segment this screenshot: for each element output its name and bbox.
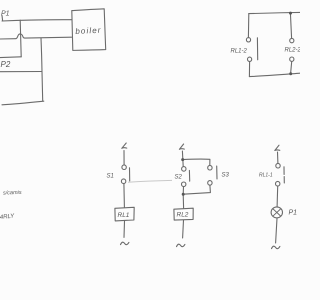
svg-text:S1: S1 bbox=[107, 174, 114, 180]
svg-text:s/camis: s/camis bbox=[3, 190, 22, 197]
svg-text:S2: S2 bbox=[175, 175, 183, 181]
svg-text:RL1: RL1 bbox=[118, 212, 130, 219]
svg-text:RL2: RL2 bbox=[177, 212, 189, 219]
svg-text:boiler: boiler bbox=[75, 26, 102, 36]
svg-text:RL1-1: RL1-1 bbox=[259, 173, 273, 179]
svg-text:P2: P2 bbox=[1, 60, 11, 69]
svg-text:RL2-2: RL2-2 bbox=[285, 48, 301, 54]
svg-text:P1: P1 bbox=[289, 210, 298, 217]
svg-text:P1: P1 bbox=[1, 11, 10, 18]
svg-text:S3: S3 bbox=[222, 173, 230, 179]
svg-text:RL1-2: RL1-2 bbox=[231, 49, 248, 55]
